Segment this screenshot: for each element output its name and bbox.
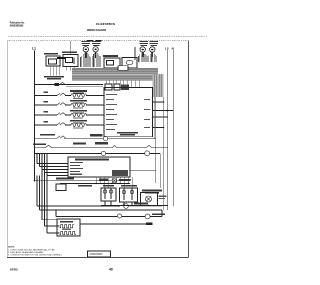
- svg-text:N: N: [172, 46, 174, 50]
- broil circuit row: [35, 100, 105, 109]
- wire above SW2: [70, 41, 72, 55]
- svg-text:CLEF378CS: CLEF378CS: [96, 22, 115, 26]
- wire row6: [35, 137, 104, 139]
- surface switch SW2: [63, 55, 78, 67]
- lamp box L: [101, 188, 116, 201]
- wire harness band upper: [72, 68, 158, 74]
- surface unit labels RF: [140, 41, 159, 46]
- surface switch SW3: [104, 58, 120, 68]
- surface switch SW4: [122, 58, 137, 69]
- junction dots bus b: [95, 183, 128, 184]
- switch row2: [57, 93, 66, 95]
- wire link box1-box2: [57, 57, 66, 59]
- fan motor row6: [103, 136, 107, 140]
- schematic frame bottom: [7, 257, 189, 259]
- ESC bottom harness: [96, 177, 132, 188]
- header rule: [8, 36, 207, 38]
- wire row5: [35, 124, 105, 126]
- element coil row5: [73, 127, 83, 128]
- svg-text:316563800T: 316563800T: [89, 253, 103, 256]
- drawing number box: [88, 251, 111, 257]
- junction dot bus: [34, 180, 36, 182]
- footer page number: [109, 268, 113, 272]
- EOC internal pin labels left: [106, 94, 117, 130]
- right vertical riser A: [155, 97, 157, 142]
- svg-text:L1: L1: [32, 47, 36, 51]
- right vertical riser A2: [153, 97, 155, 138]
- connector blocks row1: [105, 84, 129, 90]
- node L1: [32, 47, 36, 51]
- switch row147b: [112, 146, 117, 148]
- row5 circuit: [35, 120, 105, 129]
- wire bundle under E1 E2: [81, 53, 101, 68]
- wire harness right drop: [153, 74, 164, 97]
- wire row2: [35, 95, 105, 97]
- svg-text:NOTE:: NOTE:: [8, 247, 15, 249]
- element coil row2: [73, 98, 83, 99]
- svg-text:WIRING DIAGRAM: WIRING DIAGRAM: [87, 28, 106, 32]
- wire L2: [167, 50, 169, 210]
- schematic frame left: [6, 41, 8, 258]
- right vertical riser C: [163, 97, 165, 148]
- EOC right pins: [153, 101, 174, 128]
- wire oven feed row1: [35, 84, 104, 86]
- door motor bottom: [56, 210, 165, 219]
- svg-text:3. CONDUCTOR SIZE IS TO BE L: 3. CONDUCTOR SIZE IS TO BE LISTED IN ALL…: [8, 253, 62, 256]
- warmer element box: [57, 219, 80, 236]
- warmer feed wires: [42, 170, 60, 234]
- ESC top label: [75, 159, 109, 161]
- frame top dark dashes: [87, 40, 102, 42]
- wire lower bus b: [60, 183, 130, 185]
- surface unit labels LF: [82, 41, 101, 46]
- wire row3: [35, 104, 105, 106]
- electronic surface control ESC: [68, 157, 130, 177]
- wire row4: [35, 114, 105, 116]
- ESC pin labels: [70, 162, 83, 175]
- surface unit E3: [140, 47, 145, 57]
- switch row6: [57, 136, 66, 138]
- title WIRING DIAGRAM: [87, 28, 106, 32]
- wire bottom row a: [37, 176, 120, 207]
- riser A drop: [155, 139, 157, 183]
- element coil bottom1: [60, 225, 75, 228]
- EOC right pin labels: [144, 99, 150, 128]
- publication number text: [10, 20, 25, 27]
- small relay box: [56, 184, 66, 191]
- probe jack symbol: [99, 179, 131, 183]
- wire row153: [35, 153, 161, 155]
- lamp box M label: [121, 185, 137, 187]
- wire lower bus a: [35, 180, 131, 182]
- switch row4: [57, 113, 66, 115]
- wire bundle box4 drop: [134, 47, 136, 60]
- door lock circuit row: [33, 142, 168, 148]
- element coil row3: [73, 107, 83, 108]
- footer date: [10, 267, 18, 271]
- switch row147a: [45, 145, 52, 148]
- wire lamp bottoms: [101, 201, 168, 206]
- node L2: [165, 46, 169, 50]
- ESC feed wires: [37, 154, 68, 176]
- lamp box L label: [103, 185, 114, 187]
- EOC bottom label: [117, 132, 138, 136]
- EOC top pins: [106, 80, 139, 87]
- wire N: [172, 50, 174, 206]
- latch motor a: [101, 151, 105, 155]
- surface unit E1: [83, 47, 88, 58]
- surface unit E2: [93, 47, 98, 58]
- model number text: [96, 22, 115, 26]
- warmer right wire: [80, 223, 146, 225]
- switch row5: [57, 123, 66, 125]
- wire row147: [35, 147, 168, 149]
- surface switch SW3 label: [103, 55, 118, 57]
- latch motor b: [145, 151, 150, 156]
- warmer connector blob: [146, 223, 153, 226]
- svg-text:5995380392: 5995380392: [10, 23, 24, 27]
- label bake: [70, 90, 87, 94]
- svg-text:L2: L2: [165, 46, 169, 50]
- schematic frame top: [7, 40, 189, 42]
- connector box on harness: [118, 66, 128, 70]
- notes block: [8, 247, 62, 257]
- ESC right pin wire: [130, 170, 156, 172]
- schematic frame right: [188, 41, 190, 258]
- element coil row4: [73, 117, 83, 118]
- oven lamp box: [141, 193, 167, 206]
- surface unit E4: [150, 47, 155, 57]
- latch row: [35, 151, 161, 188]
- lamp box M: [120, 188, 138, 202]
- wire bottom row b: [40, 176, 163, 217]
- wire L1 drop: [34, 51, 36, 85]
- wire row1 lower pair: [66, 85, 103, 87]
- element coil bottom2: [60, 231, 77, 234]
- row4 circuit: [35, 110, 105, 119]
- switch row3: [57, 103, 66, 105]
- surface switch SW1 label: [44, 53, 58, 55]
- row6 oven light switch: [35, 134, 156, 141]
- lower left labels: [56, 178, 92, 187]
- thermal limiter label: [44, 76, 64, 80]
- ESC connector block: [112, 170, 128, 176]
- wire stubs below SW1 SW2: [50, 66, 74, 76]
- wire bundle under E3 E4: [139, 53, 157, 62]
- thermal limiter switch: [55, 82, 66, 86]
- surface switch SW2 label: [62, 51, 77, 53]
- wire harness band lower: [72, 75, 158, 81]
- switch row147c: [146, 145, 152, 147]
- riser C drop: [163, 148, 165, 211]
- oven lamp label: [142, 190, 162, 194]
- svg-text:40: 40: [109, 268, 113, 272]
- EOC left pin ticks: [104, 96, 106, 138]
- surface switch SW1: [46, 56, 60, 66]
- node N: [172, 46, 174, 50]
- electronic oven control EOC: [104, 88, 153, 137]
- bake circuit row: [35, 90, 105, 99]
- svg-text:07/02: 07/02: [10, 267, 18, 271]
- clean switch: [122, 203, 162, 209]
- wire L1 left bus: [34, 85, 36, 181]
